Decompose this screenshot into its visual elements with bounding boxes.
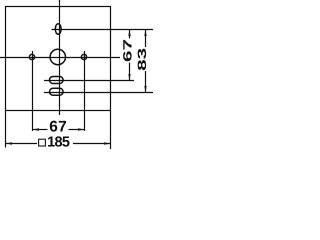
arrow left of 185 xyxy=(6,142,13,144)
wire dim line 67 bottom xyxy=(33,129,48,131)
wire top extension line xyxy=(52,29,154,31)
left screw hole xyxy=(29,54,34,59)
arrow up of 67 right xyxy=(128,30,130,37)
svg-text:67: 67 xyxy=(121,38,135,62)
label square symbol xyxy=(39,139,46,146)
wire right outer extension line xyxy=(110,110,112,149)
svg-text:67: 67 xyxy=(49,119,67,136)
wire dim line 185 bottom xyxy=(6,143,38,145)
slot oval 1 xyxy=(50,77,64,84)
wire horizontal centerline xyxy=(0,57,120,59)
svg-text:83: 83 xyxy=(135,47,149,71)
wire dim line 67 right xyxy=(129,30,131,39)
arrow up of 83 right xyxy=(144,30,146,37)
keyhole slot top ellipse xyxy=(55,24,61,35)
fixture outline rectangle xyxy=(6,7,111,111)
wire slot2 extension line xyxy=(44,92,153,94)
center hole circle xyxy=(50,49,65,64)
wire left hole extension line xyxy=(32,51,34,131)
arrow down of 67 right xyxy=(128,74,130,81)
wire slot1 extension line xyxy=(44,80,134,82)
arrow left of 67 bottom xyxy=(33,128,40,130)
wire vertical centerline xyxy=(59,0,61,115)
right screw hole xyxy=(81,54,86,59)
wire left outer extension line xyxy=(5,110,7,148)
svg-text:185: 185 xyxy=(47,135,70,151)
arrow down of 83 right xyxy=(144,86,146,93)
wire right hole extension line xyxy=(84,51,86,131)
slot oval 2 xyxy=(50,88,64,95)
wire dim line 83 right xyxy=(145,30,147,48)
arrow right of 185 xyxy=(104,142,111,144)
arrow right of 67 bottom xyxy=(78,128,85,130)
